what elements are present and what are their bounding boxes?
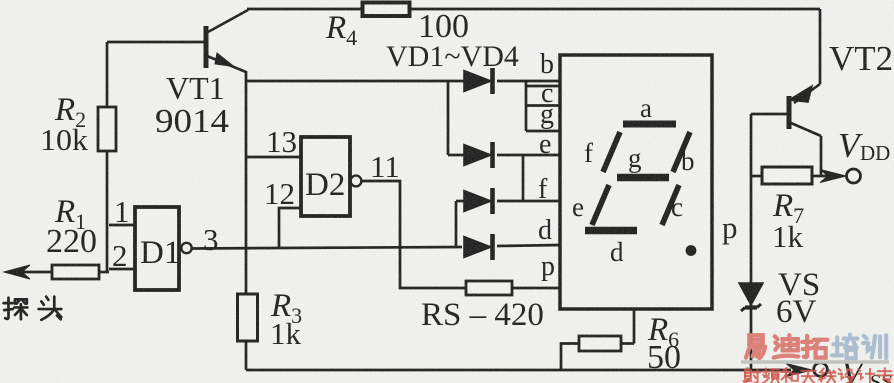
- watermark logo 培训: [832, 335, 886, 359]
- display segment g: [617, 174, 669, 182]
- display decimal point: [686, 245, 697, 256]
- gate D1: [109, 207, 192, 290]
- resistor R2: [98, 42, 116, 272]
- wire pin 11 to RS-420 to display p: [361, 181, 560, 288]
- wire b row: [246, 80, 560, 83]
- resistor R1: [52, 265, 109, 279]
- watermark underline: [741, 360, 889, 364]
- wire e row: [448, 154, 560, 157]
- wire f row: [456, 200, 560, 203]
- diode VD1: [464, 68, 493, 94]
- wire VT1 emitter vertical: [245, 71, 248, 294]
- wire top rail: [247, 8, 820, 11]
- wire D1 output to d-row: [192, 247, 462, 249]
- wire vertical f to d row: [455, 201, 458, 247]
- text 探头 probe: [4, 297, 62, 320]
- display segment letters: [572, 93, 695, 267]
- wire vertical b to e row: [447, 81, 450, 155]
- diode VD2: [464, 142, 493, 168]
- diode VD3: [464, 188, 493, 214]
- wire e-f tie vertical: [522, 155, 525, 201]
- wire VT2 base vertical: [750, 114, 753, 370]
- probe wire and arrow: [4, 265, 52, 279]
- resistor RS-420: [466, 281, 512, 295]
- resistor R7: [751, 167, 812, 184]
- wire bottom rail: [246, 369, 791, 372]
- display segment a: [623, 121, 676, 128]
- display segment b: [673, 132, 690, 172]
- wire c g pin cells: [526, 81, 560, 131]
- transistor VT1: [107, 10, 248, 72]
- diode VD4: [464, 234, 493, 260]
- resistor R3: [238, 294, 258, 370]
- zener diode VS: [739, 283, 763, 311]
- terminal VDD arrow: [812, 169, 861, 183]
- watermark tagline 射频和天线设计专家: [744, 367, 894, 383]
- display pin letters: [538, 49, 555, 282]
- watermark logo 易迪拓: [746, 335, 827, 358]
- display segment f: [603, 132, 620, 172]
- display segment d: [585, 227, 637, 235]
- wire d-row cathode to display: [497, 245, 560, 246]
- display box: [560, 55, 712, 309]
- terminal VSS arrow: [786, 363, 827, 377]
- transistor VT2: [751, 9, 821, 177]
- display segment c: [662, 185, 679, 225]
- gate D2: [246, 137, 361, 248]
- resistor R6: [561, 309, 634, 370]
- resistor R4: [363, 3, 410, 17]
- display segment e: [592, 185, 609, 225]
